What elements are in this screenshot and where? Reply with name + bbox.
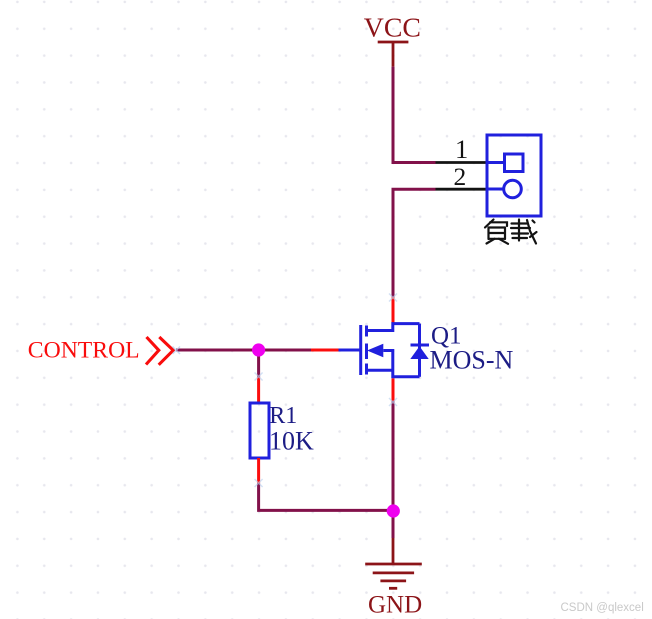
wire VCC to connector pin 1 bbox=[393, 67, 436, 163]
wire junction to R1 bbox=[257, 350, 260, 378]
svg-text:R1: R1 bbox=[269, 403, 297, 429]
transistor Q1 MOS-N symbol bbox=[339, 324, 430, 377]
pin drain (red) bbox=[392, 297, 395, 323]
port CONTROL chevrons bbox=[146, 337, 173, 365]
label 负载 (load) drawn as strokes bbox=[485, 220, 537, 244]
connector J1 body bbox=[487, 135, 541, 216]
pin 2 (connector, black) bbox=[436, 188, 488, 191]
cross mark source pin end bbox=[389, 398, 397, 406]
junction node (gate/R1) bbox=[252, 343, 265, 356]
wire source to bottom junction bbox=[392, 401, 395, 511]
cross mark R1 bottom pin end bbox=[255, 479, 263, 487]
svg-text:2: 2 bbox=[454, 162, 467, 191]
svg-text:1: 1 bbox=[455, 134, 468, 164]
cross mark R1 top pin end bbox=[255, 373, 263, 381]
wire CONTROL to gate bbox=[176, 349, 311, 352]
resistor R1 body bbox=[250, 403, 269, 458]
pin 1 (connector, black) bbox=[436, 161, 488, 164]
svg-text:CSDN @qlexcel: CSDN @qlexcel bbox=[561, 602, 644, 614]
pin gate (red) bbox=[311, 349, 339, 352]
cross mark port wire start bbox=[173, 347, 181, 355]
wire connector pin 2 to MOSFET drain bbox=[393, 189, 436, 297]
cross mark drain pin end bbox=[389, 294, 397, 302]
svg-text:MOS-N: MOS-N bbox=[430, 346, 514, 375]
wire junction to GND bbox=[392, 511, 395, 538]
svg-text:GND: GND bbox=[368, 592, 422, 619]
pin R1 top (red) bbox=[257, 378, 260, 404]
wire R1 to bottom junction bbox=[259, 483, 393, 510]
载 bbox=[512, 222, 528, 224]
power symbol VCC bbox=[378, 42, 409, 67]
负 bbox=[485, 220, 494, 228]
svg-text:CONTROL: CONTROL bbox=[28, 337, 140, 363]
pin source (red) bbox=[392, 378, 395, 401]
svg-text:10K: 10K bbox=[269, 427, 314, 456]
ground symbol bbox=[365, 538, 422, 588]
svg-text:VCC: VCC bbox=[364, 13, 421, 44]
junction node (source/R1/GND) bbox=[387, 504, 400, 517]
pin R1 bottom (red) bbox=[257, 458, 260, 483]
